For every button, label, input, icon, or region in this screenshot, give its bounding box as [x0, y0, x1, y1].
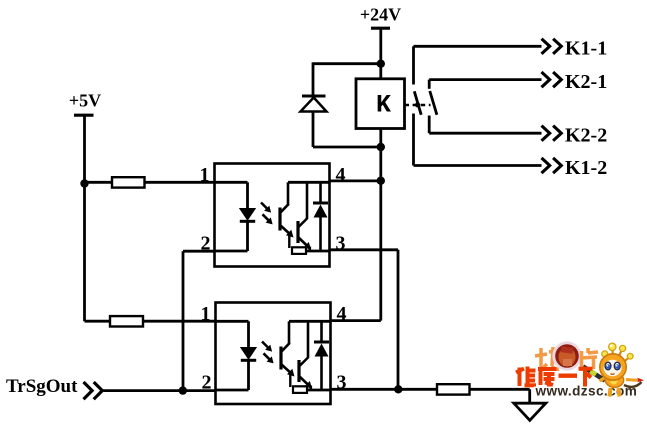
watermark magnifier [554, 343, 580, 369]
U2 LED anode wire [247, 321, 250, 348]
node: U1 pin4 junction [377, 177, 385, 185]
+24V rail bar [371, 27, 390, 30]
connector arrows K2-2 [542, 126, 562, 141]
connector arrows TrSgOut [84, 382, 103, 399]
wire down to ground [528, 389, 531, 403]
wire R2 to U2 pin 1 [143, 320, 216, 323]
wire to K2-2 [429, 132, 541, 135]
contact K1 fixed terminal (top) [412, 46, 415, 84]
U1 light arrows [261, 203, 269, 211]
resistor R1 [112, 177, 145, 187]
svg-text:+24V: +24V [360, 5, 401, 25]
watermark glyph zhao [535, 347, 559, 370]
U2 LED cathode bar [241, 359, 256, 362]
wire relay coil bottom down to U2 pin4 [379, 129, 382, 321]
svg-text:K2-1: K2-1 [565, 71, 607, 93]
connector arrows K1-2 [542, 158, 562, 173]
node: +24V / diode branch junction [377, 60, 385, 68]
wire +24V down to relay coil [379, 28, 382, 79]
wire +5V corner to R2 [85, 320, 111, 323]
svg-text:3: 3 [336, 232, 346, 254]
watermark mascot [600, 343, 645, 396]
U2 base-emitter resistor [289, 373, 291, 388]
svg-text:K1-2: K1-2 [565, 157, 607, 179]
U2 pin2 internal lead [216, 389, 249, 392]
contact K2 moving lever [430, 91, 437, 115]
diode D1 triangle (open) [301, 98, 327, 112]
watermark glyph pian [582, 348, 599, 371]
+5V rail bar [74, 114, 94, 117]
resistor R2 [110, 316, 143, 326]
wire +5V to R1 [85, 181, 113, 184]
U1 internal diode [319, 182, 322, 203]
wire to U2 pin 4 [331, 319, 381, 322]
wire U1 pin3 out [330, 248, 399, 251]
wire to K1-1 [414, 45, 542, 48]
svg-text:TrSgOut: TrSgOut [6, 376, 78, 397]
svg-text:K: K [376, 91, 391, 120]
U1 base-emitter resistor [288, 234, 290, 249]
wire U2 pin3 out [331, 388, 437, 391]
U1 collector rail [288, 181, 330, 184]
U1 pin1 internal lead [215, 181, 248, 184]
wire +5V down [83, 115, 86, 321]
svg-text:K1-1: K1-1 [565, 38, 607, 60]
U1 emitter rail [306, 250, 330, 253]
mechanical link (dashed) between contacts [405, 104, 431, 106]
node: TrSgOut / U1 pin2 junction [179, 386, 187, 394]
wire U1 pin2 out [183, 250, 215, 253]
wire TrSgOut to U2 pin 2 [101, 389, 216, 392]
contact K1 bottom terminal [412, 114, 415, 166]
U2 internal diode [320, 321, 323, 342]
U1 pin2 internal lead [215, 250, 248, 253]
node: +5V / R1 junction [80, 179, 88, 187]
wire diode anode lead [312, 112, 315, 148]
U1 LED triangle [240, 209, 255, 221]
svg-text:www.dzsc.com: www.dzsc.com [535, 384, 638, 399]
watermark group [516, 343, 644, 399]
svg-text:4: 4 [337, 303, 347, 325]
U2 phototransistor Q1 [288, 321, 291, 343]
wire R1 to U1 pin 1 [145, 181, 216, 184]
wire diode cathode lead [312, 62, 315, 96]
wire U1 pin2 down to TrSgOut [182, 251, 185, 390]
connector arrows K2-1 [542, 72, 562, 87]
wire U1 pin4 to +24V rail [330, 179, 381, 182]
wire U1 pin3 down to output rail [397, 250, 400, 389]
wire diode bottom branch [313, 146, 380, 149]
svg-text:K2-2: K2-2 [565, 125, 607, 147]
U2 pin1 internal lead [216, 320, 249, 323]
U2 LED triangle [241, 348, 256, 360]
U2 transistor Q2 [297, 360, 300, 382]
U1 LED anode wire [246, 182, 249, 209]
svg-text:1: 1 [200, 164, 210, 186]
svg-text:2: 2 [201, 232, 211, 254]
watermark stylus [583, 367, 605, 381]
wire to K2-1 [429, 78, 541, 81]
svg-text:4: 4 [336, 164, 346, 186]
U2 collector rail [289, 320, 331, 323]
node: coil bottom / diode branch junction [377, 143, 385, 151]
optocoupler U2 box [216, 303, 331, 405]
U2 emitter rail [307, 389, 331, 392]
contact K1 moving lever [414, 91, 421, 115]
U1 LED cathode bar [240, 220, 255, 223]
contact K2 bottom terminal [428, 116, 431, 134]
U1 LED cathode wire [246, 221, 249, 251]
svg-text:3: 3 [337, 371, 347, 393]
relay coil K box [356, 79, 405, 129]
U2 LED cathode wire [247, 360, 250, 390]
U1 transistor Q2 [296, 221, 299, 243]
contact K2 fixed terminal (top) [428, 80, 431, 89]
diode D1 (flyback, cathode bar) [302, 95, 326, 98]
U2 light arrows [262, 342, 270, 350]
optocoupler U1 box [215, 164, 330, 267]
connector arrows K1-1 [542, 39, 562, 54]
wire diode top branch [313, 62, 380, 65]
ground symbol [514, 403, 546, 420]
resistor R3 [437, 384, 470, 394]
svg-text:+5V: +5V [69, 91, 101, 111]
watermark red text wei-ku-yi-xia [516, 367, 593, 387]
wire to K1-2 [414, 164, 542, 167]
svg-text:1: 1 [201, 303, 211, 325]
U1 phototransistor Q1 [287, 182, 290, 204]
svg-text:2: 2 [202, 371, 212, 393]
link pivot dot [415, 102, 420, 107]
wire R3 to ground [470, 388, 530, 391]
node: output rail junction [394, 385, 402, 393]
